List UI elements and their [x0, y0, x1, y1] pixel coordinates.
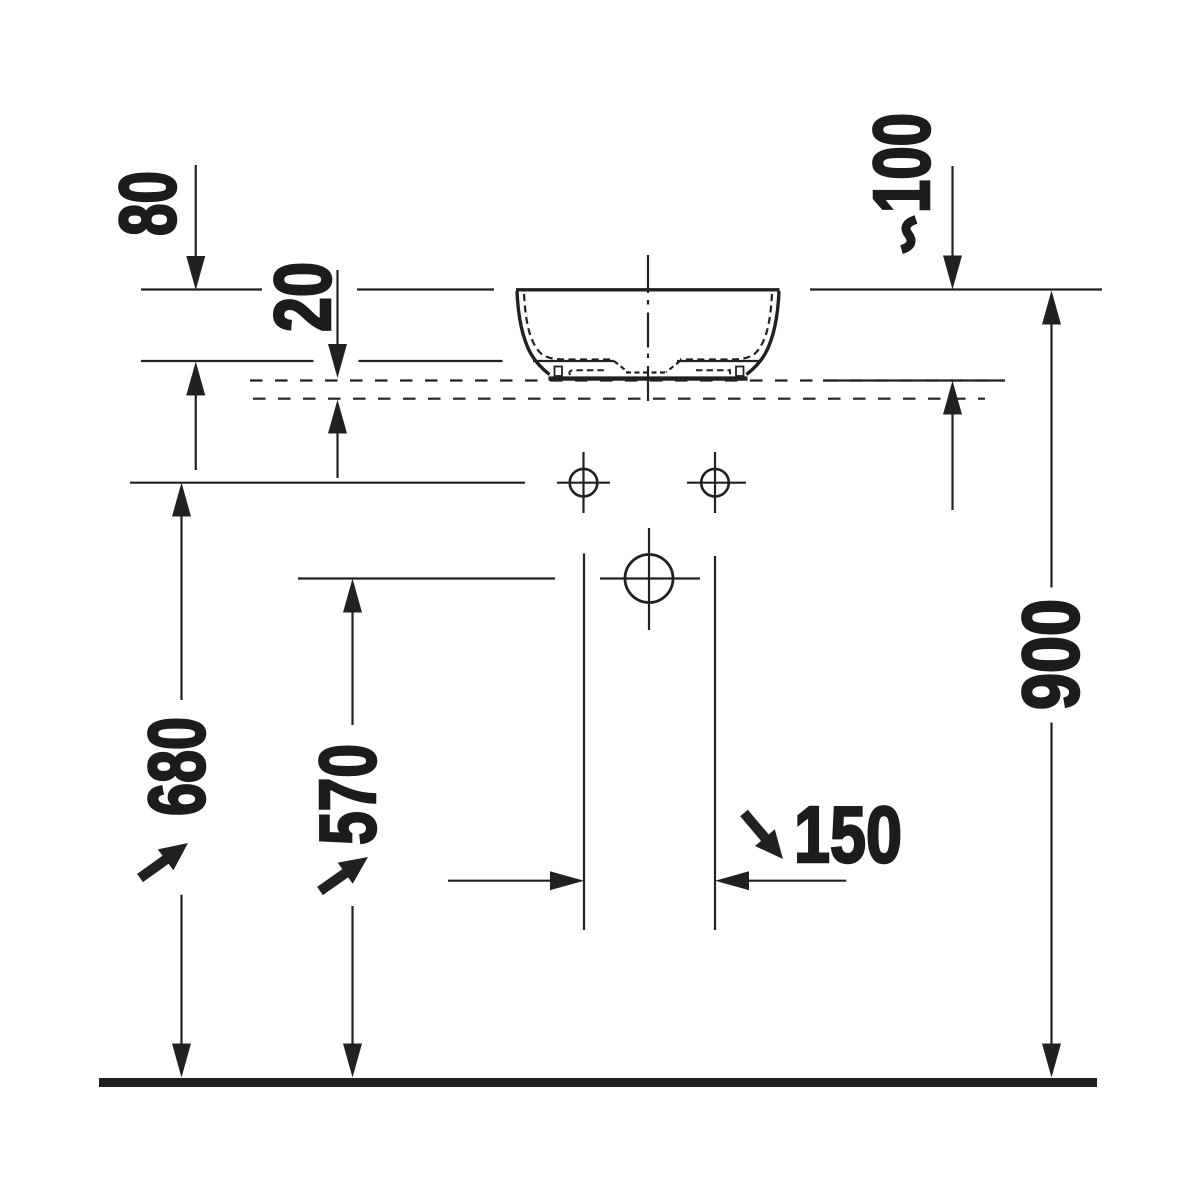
svg-text:20: 20 — [258, 262, 347, 332]
svg-text:100: 100 — [857, 113, 946, 213]
svg-text:570: 570 — [303, 744, 392, 845]
svg-text:900: 900 — [1006, 599, 1095, 710]
svg-text:150: 150 — [794, 790, 902, 879]
svg-text:680: 680 — [132, 717, 221, 816]
svg-text:80: 80 — [103, 171, 192, 236]
